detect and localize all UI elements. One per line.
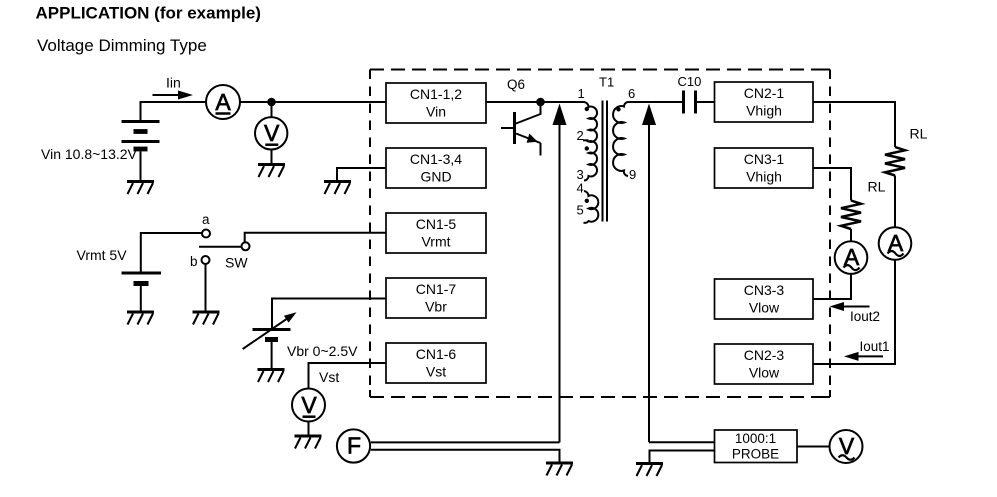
svg-text:CN3-3: CN3-3 — [744, 282, 785, 298]
resistor RL outer — [885, 147, 905, 176]
node Q6 collector junction — [536, 98, 545, 107]
connector box CN1-3,4 GND — [386, 148, 486, 188]
svg-text:Vhigh: Vhigh — [746, 103, 782, 119]
connector box CN2-3 Vlow — [715, 344, 814, 384]
transformer polarity dot pin 4 — [585, 199, 589, 203]
ground Vbr — [258, 370, 285, 383]
annotation arrow Iout1 — [844, 352, 883, 361]
svg-text:9: 9 — [629, 167, 636, 182]
wire main input bus — [141, 101, 387, 103]
switch contact b — [202, 256, 210, 264]
capacitor C10 — [684, 91, 696, 114]
connector box CN1-6 Vst — [386, 343, 486, 383]
transformer T1 core — [603, 101, 608, 222]
svg-text:Vrmt: Vrmt — [421, 234, 450, 250]
variable source arrow — [243, 312, 297, 349]
ground Vrmt battery — [127, 312, 154, 325]
transformer T1 primary winding pins 4-5 — [584, 191, 599, 223]
svg-text:Vrmt 5V: Vrmt 5V — [77, 247, 128, 263]
svg-text:Vbr: Vbr — [425, 299, 447, 315]
svg-text:Vst: Vst — [426, 364, 446, 380]
wire Vbr bottom lead — [271, 342, 273, 368]
wire RL outer to ammeter — [894, 176, 896, 228]
transformer polarity dot pin 2 — [585, 146, 589, 150]
wire CN2-1 outer loop top — [813, 102, 895, 147]
svg-text:PROBE: PROBE — [732, 447, 779, 462]
svg-text:Vlow: Vlow — [749, 365, 780, 381]
battery V1 Vin 10.8~13.2V — [122, 122, 160, 150]
ground Vst voltmeter — [295, 436, 322, 449]
wire PROBE box to voltmeter — [797, 446, 830, 448]
svg-text:RL: RL — [868, 179, 886, 195]
svg-text:4: 4 — [577, 181, 584, 196]
wire probe arrow 2 top line to PROBE box — [649, 441, 715, 443]
svg-text:F: F — [347, 433, 361, 459]
svg-text:CN1-3,4: CN1-3,4 — [410, 151, 462, 167]
switch pivot contact — [242, 242, 250, 250]
wire battery Vin bottom lead — [140, 152, 142, 181]
ground PROBE input — [636, 464, 663, 477]
ammeter A outer AC — [879, 227, 912, 260]
svg-text:Iout1: Iout1 — [860, 339, 890, 354]
svg-text:2: 2 — [577, 128, 584, 143]
ground F meter probe — [546, 463, 573, 476]
node input junction — [267, 98, 276, 107]
svg-text:CN3-1: CN3-1 — [744, 151, 785, 167]
wire switch pivot to CN1-5 — [245, 233, 386, 243]
svg-text:CN1-5: CN1-5 — [416, 216, 457, 232]
wire C10 to CN2-1 — [697, 101, 715, 103]
voltmeter V Vst DC — [292, 389, 325, 422]
svg-text:1000:1: 1000:1 — [735, 431, 776, 446]
resistor RL inner — [841, 201, 861, 230]
svg-text:Vst: Vst — [319, 369, 339, 385]
probe box 1000:1 PROBE — [715, 430, 798, 463]
wire outer loop bottom to CN2-3 — [813, 260, 895, 364]
current arrow Iin — [153, 91, 194, 100]
svg-text:V: V — [264, 120, 280, 146]
svg-text:Iout2: Iout2 — [850, 309, 880, 324]
svg-text:CN1-7: CN1-7 — [416, 281, 457, 297]
connector box CN2-1 Vhigh — [715, 82, 814, 122]
wire PROBE box bottom line to ground — [650, 451, 715, 463]
svg-text:Iin: Iin — [166, 75, 181, 91]
switch SW arm — [199, 246, 241, 248]
battery V2 Vrmt 5V — [122, 273, 162, 284]
ground voltmeter input — [258, 165, 285, 178]
svg-text:Vin: Vin — [426, 104, 446, 120]
transistor Q6 — [501, 105, 541, 156]
svg-text:Voltage Dimming Type: Voltage Dimming Type — [37, 36, 207, 55]
svg-text:A: A — [215, 89, 231, 115]
ground battery Vin — [127, 182, 154, 195]
svg-text:b: b — [190, 254, 198, 269]
wire CN3-1 inner loop top — [813, 168, 851, 201]
ground CN1-3,4 — [324, 182, 351, 195]
ammeter A input DC — [206, 85, 240, 119]
svg-text:Vhigh: Vhigh — [746, 169, 782, 185]
svg-text:RL: RL — [910, 126, 928, 142]
voltmeter V output AC — [830, 430, 863, 463]
svg-text:5: 5 — [577, 203, 584, 218]
svg-text:APPLICATION (for example): APPLICATION (for example) — [36, 4, 261, 23]
transformer T1 pin 2 tap stub — [583, 139, 589, 141]
wire F meter bottom line to ground — [371, 450, 560, 462]
wire switch contact b to ground — [205, 264, 207, 311]
transformer polarity dot pin 1 — [585, 107, 589, 111]
svg-text:6: 6 — [628, 86, 635, 101]
svg-text:Vlow: Vlow — [749, 300, 780, 316]
wire CN1-3,4 to ground — [337, 168, 386, 180]
transformer polarity dot pin 6 — [616, 107, 620, 111]
svg-text:Vbr 0~2.5V: Vbr 0~2.5V — [287, 343, 358, 359]
variable source Vbr plates — [253, 330, 291, 340]
wire CN1-1,2 to transformer pin 1 — [486, 101, 585, 103]
wire voltmeter input top lead — [271, 102, 273, 118]
annotation arrow Iout2 — [830, 302, 870, 311]
connector box CN1-7 Vbr — [386, 278, 486, 318]
svg-text:CN2-3: CN2-3 — [744, 347, 785, 363]
wire battery Vin top lead — [140, 101, 142, 120]
wire Vrmt battery bottom lead — [140, 286, 142, 311]
wire CN1-7 to Vbr source — [272, 299, 386, 329]
wire CN1-6 to Vst voltmeter — [309, 363, 387, 388]
wire voltmeter input bottom lead — [271, 149, 273, 163]
svg-text:V: V — [301, 392, 317, 418]
voltmeter V input DC — [255, 117, 287, 149]
svg-text:Q6: Q6 — [507, 77, 525, 92]
frequency meter F — [337, 429, 370, 462]
ground switch contact b — [193, 312, 220, 325]
svg-text:SW: SW — [225, 255, 248, 271]
svg-text:a: a — [202, 212, 210, 227]
svg-text:CN1-6: CN1-6 — [416, 346, 457, 362]
connector box CN3-3 Vlow — [715, 279, 814, 319]
switch contact a — [202, 230, 210, 238]
connector box CN1-1,2 Vin — [386, 83, 486, 123]
wire Vst voltmeter bottom lead — [308, 422, 310, 435]
probe arrow at Q6 collector — [553, 104, 567, 443]
svg-text:CN1-1,2: CN1-1,2 — [410, 86, 462, 102]
connector box CN1-5 Vrmt — [386, 213, 486, 253]
svg-text:C10: C10 — [678, 74, 702, 89]
probe arrow at transformer pin 6 — [642, 104, 656, 443]
svg-text:T1: T1 — [599, 75, 614, 90]
svg-text:Vin 10.8~13.2V: Vin 10.8~13.2V — [41, 146, 138, 162]
wire RL inner to ammeter — [850, 229, 852, 242]
dashed converter module outline — [370, 70, 830, 398]
ammeter A inner AC — [835, 241, 868, 274]
wire F meter top line to probe arrow — [371, 441, 560, 443]
svg-text:GND: GND — [420, 169, 451, 185]
svg-text:CN2-1: CN2-1 — [744, 85, 785, 101]
svg-text:1: 1 — [578, 86, 585, 101]
wire inner loop bottom to CN3-3 — [813, 274, 851, 299]
transformer T1 primary winding pins 1-2-3 — [570, 102, 597, 181]
transformer T1 secondary winding pins 6-9 — [613, 102, 682, 176]
connector box CN3-1 Vhigh — [715, 148, 814, 188]
wire Vrmt battery to switch contact a — [141, 233, 203, 272]
